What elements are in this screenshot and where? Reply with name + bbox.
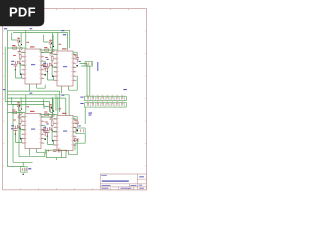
op-amp/timer IC2 [57,51,73,86]
RN2 label [80,103,83,104]
resistor R2 [19,54,21,59]
net label 2b [79,61,81,62]
rev cell text [139,184,142,187]
transistor Q6 [20,112,23,115]
wire block4 nets [39,97,77,158]
R1 label [12,45,15,46]
IC2 pin numbers [54,53,75,80]
transistor Q1 [17,38,20,45]
transistor Q2 [20,47,23,50]
capacitor C10 [50,116,54,119]
diode D1 [17,61,20,64]
junction [51,130,52,131]
title block [100,174,146,190]
Q1 label [17,38,20,39]
junction [15,134,16,135]
R11 label [45,122,48,123]
node VCC label [4,28,7,29]
resistor R5 [51,56,53,61]
IC3 pins [22,117,45,143]
C12 ref [74,120,76,121]
C5 label [43,66,45,67]
capacitor C9 [43,128,47,136]
net label 4a [59,108,62,109]
sheet field [121,187,132,190]
capacitor C8 [14,126,18,134]
junction [20,138,22,140]
resistor R7 [13,111,17,113]
pin end [51,107,52,108]
C9 ref [42,129,44,130]
RN1 label [80,97,83,98]
resistor R10 [45,113,49,115]
net name 1 [30,28,33,29]
junction [76,65,78,67]
IC1 pins [22,53,45,79]
diode D1 [75,138,79,142]
IC4 value label [63,131,67,132]
wire block2 nets [39,32,77,93]
C6 ref [74,55,76,56]
net name 3 [30,93,33,94]
junction [20,73,22,75]
IC4 pin names [58,118,73,145]
C11 label [43,130,45,131]
C3 ref [42,64,44,65]
RN1 designator [123,89,126,90]
junction [44,138,46,140]
resistor network RN1 [85,95,127,101]
op-amp/timer IC1 [25,49,41,84]
net label 2c [43,63,46,64]
junction [47,136,48,137]
junction [44,74,46,76]
wire block1 nets [7,30,52,91]
title text [102,180,129,181]
node GND label [3,89,6,90]
R7 label [12,110,15,111]
pin end [53,111,54,112]
wire block3 nets [7,95,52,156]
capacitor C6 [75,54,79,62]
capacitor C2 [14,61,18,69]
wire [5,30,7,166]
net N$1 label [63,34,66,35]
junction [15,69,16,70]
capacitor C3 [43,63,47,71]
op-amp/timer IC4 [57,116,73,151]
Q5 label [17,102,20,103]
switch S1 [85,62,93,67]
date field [102,187,109,190]
resistor R11 [51,121,53,126]
net label 3a [27,106,30,107]
IC3 pin numbers [22,116,43,143]
pin end [21,44,22,45]
IC3 ref label [30,111,35,112]
junction [51,65,52,66]
IC4 pins [54,119,77,145]
junction [19,128,20,129]
IC2 pins [54,55,77,81]
junction [52,75,54,77]
R8 label [13,120,16,121]
pin end [21,109,22,110]
IC2 ref label [62,48,67,49]
pin end [19,105,20,106]
C2 label [11,64,13,65]
company label [101,174,107,177]
wire [5,91,69,116]
capacitor C5 [46,63,50,71]
title rev [139,176,144,177]
switch S2 [76,128,85,134]
IC1 pin numbers [22,51,43,78]
capacitor C12 [75,119,79,127]
transistor Q5 [17,102,20,109]
svg-text:PDF: PDF [9,5,36,20]
net label 4b [79,125,81,126]
Q7 label [49,104,52,105]
op-amp/timer IC3 [25,114,41,149]
capacitor on loop [53,149,60,153]
junction [47,71,48,72]
R10 label [44,112,47,113]
net name 4 [62,95,65,96]
junction [52,140,54,142]
R4 label [44,47,47,48]
capacitor C7 [18,114,22,117]
net label 1b [47,59,49,60]
S2 contacts [78,129,84,132]
IC2 pin names [58,54,73,81]
net label 4c [43,127,46,128]
IC1 value label [31,64,35,65]
diode D2 [49,63,52,66]
wire [80,64,90,97]
wire [7,104,46,166]
S2 labels [89,113,93,114]
pin end [19,41,20,42]
net label 1c [11,61,14,62]
IC3 value label [31,129,35,130]
G1 label [28,168,31,169]
wire [57,107,86,160]
transistor Q7 [49,104,52,111]
pin end [53,46,54,47]
net label vertical [97,62,98,71]
net label 3b [47,123,49,124]
PDF badge [0,0,44,26]
resistor R8 [19,119,21,124]
IC2 value label [63,66,67,67]
net name 2 [62,30,65,31]
wire loop [46,150,66,157]
junction [19,63,20,64]
IC3 pin names [26,116,41,143]
battery G1 [21,167,27,173]
net label 3c [11,125,14,126]
resistor R1 [13,47,17,49]
net label 1a [27,42,30,43]
IC1 ref label [30,46,35,47]
Q3 label [49,40,52,41]
capacitor C11 [46,128,50,136]
diode D3 [17,125,20,128]
junction [76,129,78,131]
wire [7,30,69,50]
doc number [102,184,111,187]
resistor R4 [45,49,49,51]
pin end [51,43,52,44]
IC4 pin numbers [54,118,75,145]
IC1 pin names [26,52,41,79]
doc number2 [131,184,137,187]
S1 contacts [86,62,91,65]
transistor Q4 [52,49,55,52]
G1 pin end [23,174,24,175]
loop pin marks [48,150,68,152]
capacitor C1 [18,50,22,53]
IC4 ref label [62,113,67,114]
R2 label [13,55,16,56]
net label 2a [59,44,62,45]
diode D4 [49,127,52,130]
transistor Q8 [52,114,55,117]
resistor network RN2 [85,101,127,107]
sheet num [139,187,144,190]
R5 label [45,57,48,58]
C8 label [11,128,13,129]
capacitor C4 [50,52,54,55]
frame ticks [3,9,147,190]
transistor Q3 [49,40,52,47]
